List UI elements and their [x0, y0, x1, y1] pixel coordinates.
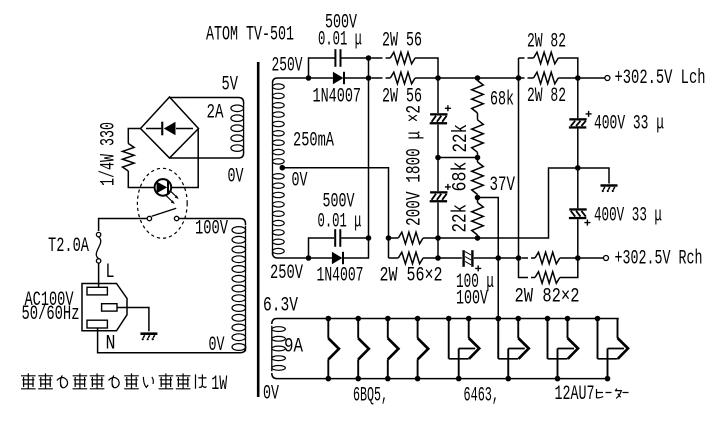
transformer T1 core: [257, 62, 260, 397]
heater 12AU7 (2): [597, 319, 599, 359]
svg-text:400V 33 μ: 400V 33 μ: [594, 205, 662, 228]
heater 6463 (1): [448, 319, 450, 359]
heater bottom bus: [272, 373, 608, 379]
terminal +302.5V Lch: [605, 76, 610, 81]
svg-text:6BQ5,: 6BQ5,: [353, 385, 388, 408]
plug prong earth: [102, 304, 117, 311]
svg-text:22k: 22k: [450, 204, 473, 233]
wire HV winding bottom tap: [273, 253, 306, 258]
dashed ellipse power switch unit: [137, 168, 187, 238]
svg-text:T2.0A: T2.0A: [48, 235, 89, 258]
wire node B to 2W82: [438, 77, 519, 79]
AC plug: [82, 284, 127, 331]
svg-text:250mA: 250mA: [293, 130, 334, 153]
resistor 22k (1): [472, 120, 484, 153]
svg-text:+302.5V Lch: +302.5V Lch: [615, 67, 706, 90]
svg-text:0V: 0V: [209, 334, 225, 357]
heater top bus: [272, 319, 619, 325]
wire LED to bridge right vertex: [171, 129, 198, 188]
svg-text:0.01 μ: 0.01 μ: [318, 211, 362, 234]
wire resistor to LED: [128, 171, 154, 188]
svg-text:6463,: 6463,: [464, 385, 500, 408]
resistor 2W 82x2 (row1): [516, 255, 522, 261]
winding 6.3V 9A heater: [271, 326, 273, 372]
resistor 2W 82x2 (row2): [519, 258, 536, 278]
resistor 2W 82 (row2): [521, 77, 534, 79]
LED arrows: [170, 190, 177, 197]
node 2W56x2 right (row2): [462, 250, 464, 267]
wire HV winding top tap: [273, 78, 306, 83]
svg-text:22k: 22k: [450, 124, 473, 153]
wire row258 to 2W82x2: [474, 257, 519, 259]
LED pilot lamp: [155, 179, 172, 196]
node 0V-line junction: [386, 235, 392, 241]
wire to Rch terminal: [578, 257, 603, 259]
svg-text:6.3V: 6.3V: [263, 295, 298, 318]
ground (plug): [140, 332, 157, 335]
svg-text:12AU7: 12AU7: [555, 383, 595, 406]
svg-text:100V: 100V: [456, 288, 488, 311]
wire snubber loop bottom: [309, 238, 369, 258]
winding 5V/2A secondary: [243, 104, 245, 152]
heater 6BQ5 (4): [417, 319, 419, 339]
node B: [435, 75, 441, 81]
plug prong N: [87, 320, 107, 328]
svg-text:1/4W 330: 1/4W 330: [98, 122, 121, 186]
svg-text:1N4007: 1N4007: [313, 86, 362, 109]
resistor 22k (2): [477, 198, 479, 203]
resistor 2W 56 (row2): [371, 77, 390, 79]
svg-text:2A: 2A: [207, 102, 224, 125]
capacitor 400V 33u (Lch): [577, 78, 579, 118]
wire switch to 100V winding: [179, 219, 246, 226]
ground (Lch filter): [601, 184, 618, 187]
svg-text:2W 82×2: 2W 82×2: [515, 286, 580, 309]
wire mid node to caps: [438, 157, 478, 159]
resistor 1/4W 330: [123, 144, 135, 172]
note: resistors without rating are 1W (Japanese): [21, 373, 36, 388]
capacitor 200V 1800u (2): [437, 158, 439, 192]
node Lch output: [575, 75, 581, 81]
winding 250V-0-250V secondary: [272, 83, 274, 255]
wire 2W56x2 row2 lead: [389, 257, 399, 259]
capacitor 400V 33u (Rch): [577, 168, 579, 208]
svg-text:2W 82: 2W 82: [527, 31, 566, 54]
svg-text:9A: 9A: [284, 336, 303, 359]
svg-text:50/60Hz: 50/60Hz: [22, 303, 80, 326]
svg-text:250V: 250V: [270, 262, 303, 285]
svg-text:200V 1800 μ ×2: 200V 1800 μ ×2: [404, 105, 427, 226]
svg-text:2W 82: 2W 82: [527, 85, 566, 108]
svg-text:5V: 5V: [222, 74, 239, 97]
wire plug N to 100V winding 0V: [98, 328, 246, 353]
node Rch output: [575, 255, 581, 261]
heater 6BQ5 (3): [387, 319, 389, 339]
svg-text:1W: 1W: [211, 373, 227, 396]
node 0V tap: [280, 165, 286, 171]
fuse T2.0A: [96, 232, 100, 236]
node divider mid: [475, 155, 481, 161]
svg-text:68k: 68k: [450, 162, 473, 192]
resistor 68k (2): [477, 158, 479, 163]
wire bridge top to 5V winding: [170, 98, 244, 105]
plug prong L: [87, 287, 107, 295]
label heater katakana: [597, 389, 629, 399]
capacitor 0.01u 500V (bottom): [334, 229, 336, 247]
node 37V: [475, 195, 481, 201]
svg-text:0V: 0V: [263, 383, 279, 406]
wire fuse to switch: [99, 219, 148, 232]
svg-text:L: L: [106, 261, 115, 284]
resistor 68k (1): [472, 81, 484, 114]
svg-text:0V: 0V: [228, 166, 244, 189]
terminal +302.5V Rch: [604, 256, 609, 261]
wire bridge left vertex to resistor: [128, 129, 140, 144]
capacitor 200V 1800u (1): [430, 113, 447, 115]
node Lch cap bottom: [575, 165, 581, 171]
wire snubber loop top: [309, 58, 369, 78]
svg-text:0.01 μ: 0.01 μ: [318, 29, 362, 52]
heater 6BQ5 (1): [327, 319, 329, 339]
svg-text:ATOM TV-501: ATOM TV-501: [206, 24, 294, 47]
capacitor 0.01u 500V (top): [334, 49, 336, 67]
svg-text:2W 56: 2W 56: [382, 30, 422, 53]
wire plug mid prong to ground: [117, 308, 149, 332]
resistor 2W 56x2 (row1): [391, 237, 398, 239]
winding 100V primary: [245, 226, 247, 352]
resistor 2W 56 (row1): [371, 57, 390, 59]
diode 1N4007 (bottom): [311, 257, 332, 259]
wire fuse to plug L: [98, 263, 100, 287]
svg-text:100V: 100V: [195, 218, 228, 241]
diode 1N4007 (top): [311, 77, 333, 79]
heater 6BQ5 (2): [357, 319, 359, 339]
svg-text:+302.5V Rch: +302.5V Rch: [615, 248, 703, 271]
svg-text:68k: 68k: [490, 89, 514, 112]
heater 12AU7 (1): [547, 319, 549, 359]
wire to Lch terminal: [578, 77, 605, 79]
wire bridge bottom to 5V winding 0V: [170, 152, 244, 159]
node B rail down: [518, 58, 520, 258]
resistor 2W 82 (row1): [519, 57, 534, 59]
wire 0V tap to ground row: [282, 168, 388, 258]
node winding-diode junction: [306, 75, 312, 81]
node A vertical (diode cathodes): [344, 58, 369, 258]
svg-text:400V 33 μ: 400V 33 μ: [594, 113, 664, 136]
wire 37V to heater bus: [478, 198, 499, 319]
svg-text:1N4007: 1N4007: [317, 265, 364, 288]
svg-text:0V: 0V: [292, 170, 308, 193]
wire node B down: [437, 78, 439, 113]
svg-text:250V: 250V: [272, 54, 303, 77]
bridge rectifier D1: [141, 97, 199, 158]
switch S1: [147, 216, 151, 220]
heater 6463 (2): [497, 319, 499, 359]
svg-text:37V: 37V: [490, 174, 516, 197]
node winding-diode junction (bottom): [306, 255, 312, 261]
svg-text:2W 56×2: 2W 56×2: [380, 265, 443, 288]
